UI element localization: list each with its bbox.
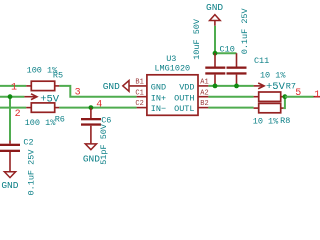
- svg-text:LMG1020: LMG1020: [154, 64, 190, 74]
- wire cap top rail: [215, 52, 237, 54]
- svg-text:R6: R6: [55, 114, 65, 124]
- power +5V right: [254, 81, 286, 93]
- wire R8 up to node: [283, 97, 285, 108]
- svg-text:51pF 50V: 51pF 50V: [99, 123, 109, 165]
- svg-text:OUTH: OUTH: [174, 93, 194, 103]
- svg-text:0.1uF 25V: 0.1uF 25V: [240, 7, 250, 54]
- svg-text:GND: GND: [103, 81, 120, 92]
- node junction output: [283, 94, 288, 99]
- svg-text:IN−: IN−: [151, 104, 166, 114]
- wire row3 left: [0, 107, 26, 109]
- wire vertical to C2: [9, 97, 11, 141]
- svg-text:3: 3: [75, 87, 81, 98]
- pin A2: [198, 96, 208, 98]
- capacitor C10: [192, 18, 235, 86]
- wire output to edge: [285, 96, 314, 98]
- node junction C6 tap: [89, 105, 94, 110]
- svg-text:10 1%: 10 1%: [253, 116, 279, 126]
- svg-text:B1: B1: [135, 79, 143, 87]
- power +5V left: [24, 94, 59, 106]
- svg-text:1: 1: [11, 82, 17, 93]
- svg-text:B2: B2: [200, 100, 208, 108]
- svg-text:4: 4: [96, 100, 102, 111]
- svg-text:GND: GND: [83, 154, 100, 165]
- pin C2: [137, 107, 147, 109]
- resistor R7: [254, 71, 296, 102]
- capacitor C11: [227, 7, 270, 85]
- pin C1: [137, 96, 147, 98]
- node junction C10/VDD: [213, 84, 218, 89]
- capacitor C6: [81, 108, 111, 165]
- svg-text:R8: R8: [280, 116, 290, 126]
- pin A1: [198, 85, 208, 87]
- svg-text:C10: C10: [220, 45, 235, 55]
- svg-text:C2: C2: [135, 100, 143, 108]
- node junction top: [213, 51, 218, 56]
- ground (pin B1 global): [103, 81, 147, 93]
- svg-text:A2: A2: [200, 89, 208, 97]
- op-amp U1 : IC U3 LMG1020 body: [147, 54, 198, 115]
- resistor R5: [26, 65, 63, 90]
- svg-text:C11: C11: [254, 56, 269, 66]
- svg-text:C1: C1: [135, 89, 143, 97]
- resistor R8: [253, 103, 291, 126]
- ground (top, caps): [206, 2, 223, 26]
- wire row1 left: [0, 85, 26, 87]
- wire OUTH row2 right: [208, 96, 253, 98]
- wire row2 left (+5V net): [0, 96, 24, 98]
- pin stub right edge: [314, 96, 320, 98]
- wire VDD row1 right: [208, 85, 253, 87]
- ground (C2): [1, 172, 18, 191]
- node junction C11/VDD: [234, 84, 239, 89]
- svg-text:2: 2: [15, 109, 21, 120]
- svg-text:0.1uF 25V: 0.1uF 25V: [27, 149, 37, 196]
- wire OUTL row3 right: [208, 107, 253, 109]
- pin B2: [198, 107, 208, 109]
- svg-text:1: 1: [314, 90, 320, 101]
- wire GND stem to caps: [214, 26, 216, 53]
- svg-text:IN+: IN+: [151, 93, 166, 103]
- svg-text:R5: R5: [53, 71, 63, 81]
- wire R5 to IN+: [59, 86, 136, 97]
- ground (C6): [83, 144, 100, 165]
- svg-text:C2: C2: [23, 138, 33, 148]
- resistor R6: [25, 103, 65, 128]
- svg-text:U3: U3: [166, 54, 176, 64]
- svg-text:GND: GND: [151, 83, 166, 93]
- svg-text:100 1%: 100 1%: [25, 118, 57, 128]
- wire R6 to IN-: [59, 107, 136, 109]
- svg-text:A1: A1: [200, 79, 208, 87]
- svg-text:VDD: VDD: [179, 83, 194, 93]
- node junction +5V/C2: [8, 94, 13, 99]
- svg-text:10uF 50V: 10uF 50V: [192, 18, 202, 60]
- svg-text:5: 5: [295, 88, 301, 99]
- svg-text:+5V: +5V: [40, 94, 60, 106]
- svg-text:GND: GND: [206, 2, 223, 13]
- svg-text:GND: GND: [1, 180, 18, 191]
- svg-text:OUTL: OUTL: [174, 104, 194, 114]
- capacitor C2: [0, 138, 37, 196]
- svg-text:10 1%: 10 1%: [260, 71, 286, 81]
